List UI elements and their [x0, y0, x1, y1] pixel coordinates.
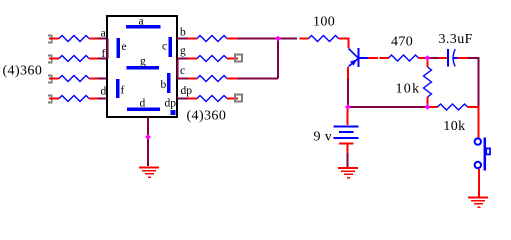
segment label b — [161, 79, 167, 91]
wire bus vertical — [277, 39, 279, 79]
svg-text:c: c — [162, 41, 167, 53]
seven-segment display U1 box — [107, 16, 177, 117]
wire — [439, 57, 448, 59]
wire row b — [177, 38, 188, 40]
svg-text:f: f — [121, 85, 125, 97]
pin label g — [180, 45, 186, 57]
wire — [89, 58, 98, 60]
svg-text:10k: 10k — [396, 82, 421, 97]
wire display common — [147, 117, 149, 166]
resistor R12 10k — [438, 104, 468, 110]
value label 10k vertical resistor — [396, 82, 421, 97]
wire row dp — [177, 98, 188, 100]
segment label dp inside — [165, 98, 177, 110]
ground G2 battery — [338, 168, 358, 178]
wire — [98, 58, 107, 60]
transistor Q1 — [349, 48, 369, 67]
resistor R9 100 — [309, 36, 339, 42]
segment g — [127, 66, 160, 70]
node junction — [425, 104, 431, 110]
svg-text:b: b — [161, 79, 167, 91]
svg-text:a: a — [101, 27, 106, 39]
node junction — [275, 36, 281, 42]
resistor R5 360 — [197, 36, 227, 42]
value label 9 v — [314, 130, 333, 145]
value label 10k bottom resistor — [443, 119, 465, 134]
wire — [89, 78, 98, 80]
segment label f — [121, 85, 125, 97]
node junction — [345, 104, 351, 110]
node junction — [425, 55, 431, 61]
wire along box right edge — [177, 59, 179, 79]
wire — [49, 78, 59, 80]
resistor R4 360 — [59, 96, 89, 102]
wire — [227, 38, 238, 40]
resistor R3 360 — [59, 76, 89, 82]
resistor R11 10k vertical — [427, 61, 429, 68]
wire — [238, 78, 279, 80]
wire — [227, 78, 238, 80]
wire — [227, 58, 238, 60]
svg-text:dp: dp — [165, 98, 177, 110]
battery V1 9v — [347, 109, 349, 125]
segment d — [127, 108, 160, 112]
wire base dash2 — [380, 57, 389, 59]
svg-text:3.3uF: 3.3uF — [439, 32, 473, 47]
connector J2 row f — [48, 56, 52, 63]
wire — [468, 58, 479, 107]
wire — [188, 38, 197, 40]
pin label b — [180, 26, 186, 38]
wire — [188, 98, 197, 100]
wire along box left edge — [107, 39, 109, 59]
ground G1 switch — [468, 198, 488, 208]
resistor R1 360 — [59, 36, 89, 42]
wire — [468, 107, 479, 138]
segment dp — [171, 110, 176, 115]
wire — [98, 78, 107, 80]
wire — [89, 38, 98, 40]
wire — [98, 98, 107, 100]
wire — [49, 58, 59, 60]
wire — [278, 38, 297, 40]
wire base dash — [368, 57, 378, 59]
wire — [458, 57, 469, 59]
resistor R10 470 — [389, 55, 419, 61]
resistor R7 360 — [197, 76, 227, 82]
svg-text:e: e — [122, 41, 127, 53]
wire row g — [177, 58, 188, 60]
wire — [300, 38, 309, 40]
wire — [347, 79, 349, 107]
switch S1 pushbutton — [475, 138, 490, 171]
connector J4 row d — [48, 96, 52, 103]
svg-text:dp: dp — [181, 85, 193, 97]
wire — [430, 106, 438, 108]
svg-text:b: b — [180, 26, 186, 38]
svg-text:g: g — [140, 56, 146, 68]
pin label dp — [181, 85, 193, 97]
svg-text:c: c — [180, 65, 185, 77]
segment f — [116, 79, 120, 98]
value label 470 — [391, 35, 413, 50]
wire — [227, 98, 238, 100]
capacitor C1 3.3uF — [448, 49, 458, 67]
wire — [419, 57, 428, 59]
segment a — [126, 25, 161, 29]
ground G3 display — [139, 168, 159, 178]
segment b — [167, 73, 171, 93]
svg-text:10k: 10k — [443, 119, 465, 134]
svg-text:(4)360: (4)360 — [187, 109, 227, 124]
wire — [89, 98, 98, 100]
segment e — [117, 38, 121, 58]
value label (4)360 right — [187, 109, 227, 124]
wire — [347, 153, 349, 167]
svg-text:(4)360: (4)360 — [3, 64, 43, 79]
svg-text:f: f — [102, 48, 106, 60]
wire — [188, 78, 197, 80]
wire — [188, 58, 197, 60]
wire ground rail — [348, 106, 428, 108]
wire — [49, 38, 59, 40]
svg-text:a: a — [139, 15, 144, 27]
pin label a — [101, 27, 106, 39]
pin label f — [102, 48, 106, 60]
resistor R8 360 — [197, 96, 227, 102]
wire — [238, 38, 279, 40]
segment label c — [162, 41, 167, 53]
wire — [339, 39, 349, 49]
svg-text:100: 100 — [313, 14, 335, 29]
resistor R6 360 — [197, 56, 227, 62]
segment c — [169, 37, 173, 57]
wire — [428, 57, 440, 59]
terminal square dp — [235, 95, 242, 102]
svg-text:d: d — [101, 86, 107, 98]
value label 100 — [313, 14, 335, 29]
segment label d — [140, 98, 146, 110]
svg-text:g: g — [180, 45, 186, 57]
connector J3 row e — [48, 76, 52, 83]
wire row c — [177, 78, 188, 80]
segment label g — [140, 56, 146, 68]
pin label c — [180, 65, 185, 77]
wire — [347, 144, 349, 154]
svg-text:9 v: 9 v — [314, 130, 333, 145]
resistor R2 360 — [59, 56, 89, 62]
wire — [478, 169, 480, 197]
connector J1 row a — [48, 36, 52, 43]
svg-text:d: d — [140, 98, 146, 110]
value label (4)360 left — [3, 64, 43, 79]
svg-text:470: 470 — [391, 35, 413, 50]
wire — [49, 98, 59, 100]
wire emitter — [347, 67, 349, 79]
segment label a — [139, 15, 144, 27]
node junction — [145, 134, 151, 140]
segment label e — [122, 41, 127, 53]
terminal square g — [235, 55, 242, 62]
value label 3.3uF — [439, 32, 473, 47]
wire — [98, 38, 107, 40]
pin label d — [101, 86, 107, 98]
